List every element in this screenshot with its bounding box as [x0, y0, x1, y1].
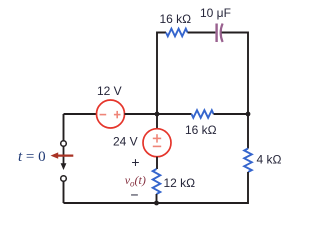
- node: middle junction: [155, 112, 160, 117]
- wire: between top resistor and capacitor: [188, 32, 216, 34]
- wire: middle resistor to right node: [214, 113, 249, 115]
- wire: middle node down to 24 V source: [156, 114, 158, 129]
- wire: bottom switch terminal to bottom-left corner: [63, 181, 65, 203]
- wire: right node down to 4 kOhm resistor: [247, 114, 249, 149]
- svg-text:16 kΩ: 16 kΩ: [185, 123, 217, 137]
- svg-text:+: +: [131, 154, 139, 170]
- switch terminal (bottom circle): [61, 176, 67, 182]
- svg-text:12 kΩ: 12 kΩ: [164, 176, 196, 190]
- switch terminal (top circle): [61, 141, 67, 147]
- wire: 12 V source to middle node: [125, 113, 192, 115]
- svg-text:4 kΩ: 4 kΩ: [257, 153, 282, 167]
- svg-text:16 kΩ: 16 kΩ: [160, 12, 192, 26]
- resistor 12 kOhm: [153, 169, 161, 194]
- voltage source 24 V: [143, 129, 171, 157]
- resistor 16 kOhm (middle branch): [192, 110, 214, 118]
- svg-text:−: −: [130, 187, 138, 203]
- wire: 4 kOhm resistor to bottom-right corner and bottom rail: [64, 172, 249, 203]
- wire: 12 kOhm resistor to bottom node: [156, 194, 158, 203]
- voltage source 12 V: [97, 100, 125, 128]
- node: bottom junction: [154, 201, 159, 206]
- node: right junction: [246, 112, 251, 117]
- svg-text:12 V: 12 V: [97, 84, 122, 98]
- resistor 16 kOhm (top branch): [166, 29, 188, 37]
- switch actuation arrow (t=0, pointing left): [51, 152, 74, 158]
- wire: left rail top (middle rail corner down to switch): [63, 114, 65, 141]
- wire: top branch left segment: [157, 33, 166, 115]
- wire: capacitor to top-right corner down to middle node: [222, 33, 248, 115]
- svg-text:24 V: 24 V: [113, 135, 138, 149]
- resistor 4 kOhm: [244, 149, 252, 173]
- svg-text:10 μF: 10 μF: [200, 6, 231, 20]
- switch blade arrow (down): [61, 147, 67, 171]
- capacitor 10 uF: [217, 24, 223, 43]
- wire: middle rail left end to 12 V source: [64, 113, 97, 115]
- svg-text:t = 0: t = 0: [18, 149, 46, 165]
- wire: 24 V source to 12 kOhm resistor: [156, 157, 158, 169]
